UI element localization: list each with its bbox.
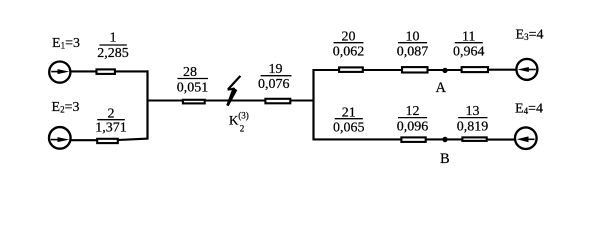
wire R12 to node B xyxy=(426,138,445,140)
resistor R1 (element 1) xyxy=(97,69,115,74)
node A junction dot xyxy=(442,68,447,73)
source E2 xyxy=(49,127,71,149)
resistor R19 (element 19) xyxy=(265,99,290,104)
wire R19 to right bus xyxy=(290,99,314,101)
svg-text:0,076: 0,076 xyxy=(258,77,290,92)
node B junction dot xyxy=(442,137,447,142)
wire R1 to left bus xyxy=(116,70,149,72)
svg-text:1,371: 1,371 xyxy=(95,121,127,136)
resistor R2 (element 2) xyxy=(97,139,118,143)
source E1 xyxy=(49,62,70,83)
fault K2(3) lightning bolt xyxy=(226,76,240,106)
resistor R20 (element 20) xyxy=(339,67,363,72)
svg-text:19: 19 xyxy=(269,62,283,77)
wire right bus to R20 xyxy=(314,69,340,71)
wire E2 to R2 xyxy=(70,139,97,141)
resistor R12 (element 12) xyxy=(401,137,425,142)
wire R11 to E3 xyxy=(488,69,517,71)
svg-text:E4=4: E4=4 xyxy=(515,101,543,116)
svg-text:28: 28 xyxy=(183,65,197,80)
value label 13/0.819 xyxy=(457,104,489,134)
svg-text:E1=3: E1=3 xyxy=(52,36,80,51)
wire node B to R13 xyxy=(445,138,463,140)
value label 2/1.371 xyxy=(95,106,127,135)
svg-text:A: A xyxy=(436,80,447,96)
svg-text:E3=4: E3=4 xyxy=(516,28,544,43)
svg-text:B: B xyxy=(440,151,450,167)
wire left bus to R28 xyxy=(148,99,183,101)
wire R10 to node A xyxy=(428,69,446,71)
value label 12/0.096 xyxy=(397,104,429,134)
wire E1 to R1 xyxy=(70,70,96,72)
svg-text:0,062: 0,062 xyxy=(333,45,365,60)
wire R2 to left bus xyxy=(118,139,149,140)
resistor R10 (element 10) xyxy=(402,67,428,72)
resistor R11 (element 11) xyxy=(462,67,488,72)
svg-text:(3): (3) xyxy=(238,111,249,121)
svg-text:0,065: 0,065 xyxy=(333,121,365,136)
resistor R28 (element 28) xyxy=(183,100,205,104)
wire node A to R11 xyxy=(445,69,462,71)
wire R28 to R19 xyxy=(205,99,265,101)
value label 20/0.062 xyxy=(333,29,365,59)
value label 19/0.076 xyxy=(258,62,291,92)
svg-text:2,285: 2,285 xyxy=(97,46,129,61)
resistor R13 (element 13) xyxy=(462,137,486,141)
svg-text:0,096: 0,096 xyxy=(397,119,429,134)
svg-text:0,051: 0,051 xyxy=(177,81,209,96)
value label 28/0.051 xyxy=(177,65,209,96)
value label 1/2.285 xyxy=(97,31,129,61)
svg-text:1: 1 xyxy=(110,31,117,46)
svg-text:E2=3: E2=3 xyxy=(52,100,80,115)
source E3 xyxy=(516,59,537,80)
svg-text:0,087: 0,087 xyxy=(397,45,429,60)
wire right bus to R12 xyxy=(314,138,402,140)
value label 21/0.065 xyxy=(333,105,365,135)
left bus (vertical wire) xyxy=(146,70,148,139)
value label 10/0.087 xyxy=(397,29,429,59)
wire R13 to E4 xyxy=(487,139,516,141)
value label 11/0.964 xyxy=(453,29,485,59)
svg-text:0,819: 0,819 xyxy=(457,119,489,134)
svg-text:2: 2 xyxy=(240,124,245,134)
right bus (vertical wire) xyxy=(312,69,314,140)
wire R20 to R10 xyxy=(363,69,402,71)
label K2(3) xyxy=(229,111,249,134)
source E4 xyxy=(515,127,537,149)
svg-text:0,964: 0,964 xyxy=(453,45,485,60)
